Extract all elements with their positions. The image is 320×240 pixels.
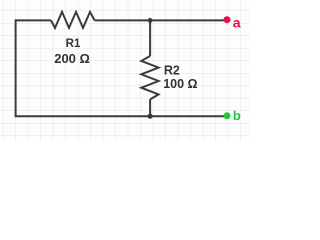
junction node: top (R2 / top wire) <box>148 18 153 23</box>
terminal b (green dot) <box>224 112 231 119</box>
wire: left side vertical <box>15 19 17 116</box>
wire: junction to terminal a <box>150 19 227 21</box>
svg-text:100 Ω: 100 Ω <box>163 77 197 91</box>
svg-text:R2: R2 <box>164 63 180 77</box>
wire: R1 right lead to junction <box>95 19 151 21</box>
junction node: bottom (R2 / bottom wire) <box>148 114 153 119</box>
svg-text:a: a <box>233 14 241 30</box>
wire: R2 top lead <box>149 20 151 56</box>
resistor R1 (200 ohm, horizontal zigzag) <box>51 12 95 28</box>
wire: bottom horizontal from bottom-left corner to terminal b <box>15 115 227 117</box>
svg-text:R1: R1 <box>66 38 81 50</box>
wire: R2 bottom lead <box>149 99 151 116</box>
resistor R2 (100 ohm, vertical zigzag) <box>141 56 158 99</box>
svg-text:200 Ω: 200 Ω <box>54 51 90 66</box>
wire: top-left segment from R1 left lead to top-left corner <box>16 19 51 21</box>
terminal a (red dot) <box>224 16 231 23</box>
svg-text:b: b <box>233 108 241 123</box>
